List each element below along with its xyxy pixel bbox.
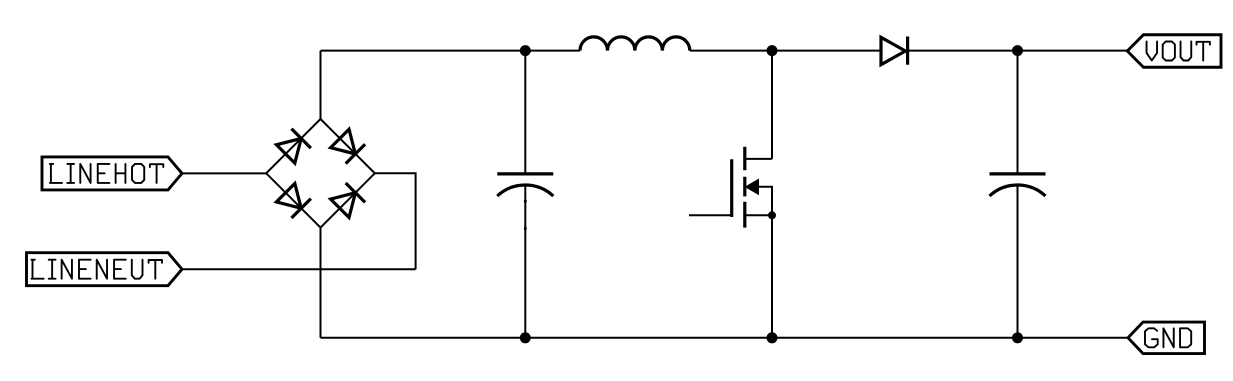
wire C1 top (524, 51, 526, 174)
wire Q1 drain (771, 51, 773, 159)
wire bridge top to rail (320, 51, 322, 119)
wire joint C1 pin (524, 200, 527, 202)
bridge diode top-right (330, 129, 365, 164)
diode D5 (881, 37, 908, 65)
label VOUT text (1147, 42, 1210, 61)
flag LINEHOT (42, 157, 182, 190)
wire Q1 source to rail (771, 215, 773, 337)
label LINEHOT text (50, 164, 163, 183)
wire top rail segment 3 (908, 50, 1128, 52)
wire bottom rail (321, 337, 1129, 339)
label GND text (1145, 328, 1191, 347)
wire bridge bottom to rail (320, 228, 322, 338)
wire LINENEUT horizontal (182, 268, 416, 270)
wire Q1 gate lead (689, 214, 732, 216)
wire C1 bottom (524, 186, 526, 338)
wire LINEHOT to bridge (182, 172, 266, 174)
wire C2 bottom (1017, 186, 1019, 338)
bridge diode bottom-right (330, 183, 365, 218)
transistor Q1 gate bar (730, 159, 733, 217)
wire top rail segment 2 (690, 50, 881, 52)
junction top rail C2 (1012, 45, 1023, 56)
label LINENEUT text (31, 260, 162, 279)
junction Q1 source (768, 211, 776, 219)
junction top rail Q1 (767, 45, 778, 56)
junction bottom rail C1 (520, 332, 531, 343)
junction bottom rail Q1 (767, 332, 778, 343)
capacitor C2 (990, 174, 1046, 196)
flag VOUT (1127, 35, 1221, 68)
inductor L1 (580, 37, 690, 51)
transistor Q1 source bar (745, 214, 772, 216)
bridge diamond wires (266, 119, 375, 228)
transistor Q1 channel (743, 147, 746, 228)
flag LINENEUT (27, 253, 183, 286)
transistor Q1 body arrow (745, 179, 760, 196)
bridge diode bottom-left (276, 183, 311, 218)
wire C2 top (1017, 51, 1019, 174)
transistor Q1 drain bar (745, 158, 772, 160)
bridge diode top-left (276, 129, 311, 164)
capacitor C1 (497, 174, 553, 196)
wire joint C1 segment (524, 227, 527, 229)
flag GND (1128, 322, 1205, 354)
wire top rail segment 1 (321, 50, 581, 52)
wire LINENEUT riser (375, 173, 416, 269)
junction bottom rail C2 (1012, 332, 1023, 343)
junction top rail C1 (520, 45, 531, 56)
transistor Q1 body wire (759, 187, 772, 216)
